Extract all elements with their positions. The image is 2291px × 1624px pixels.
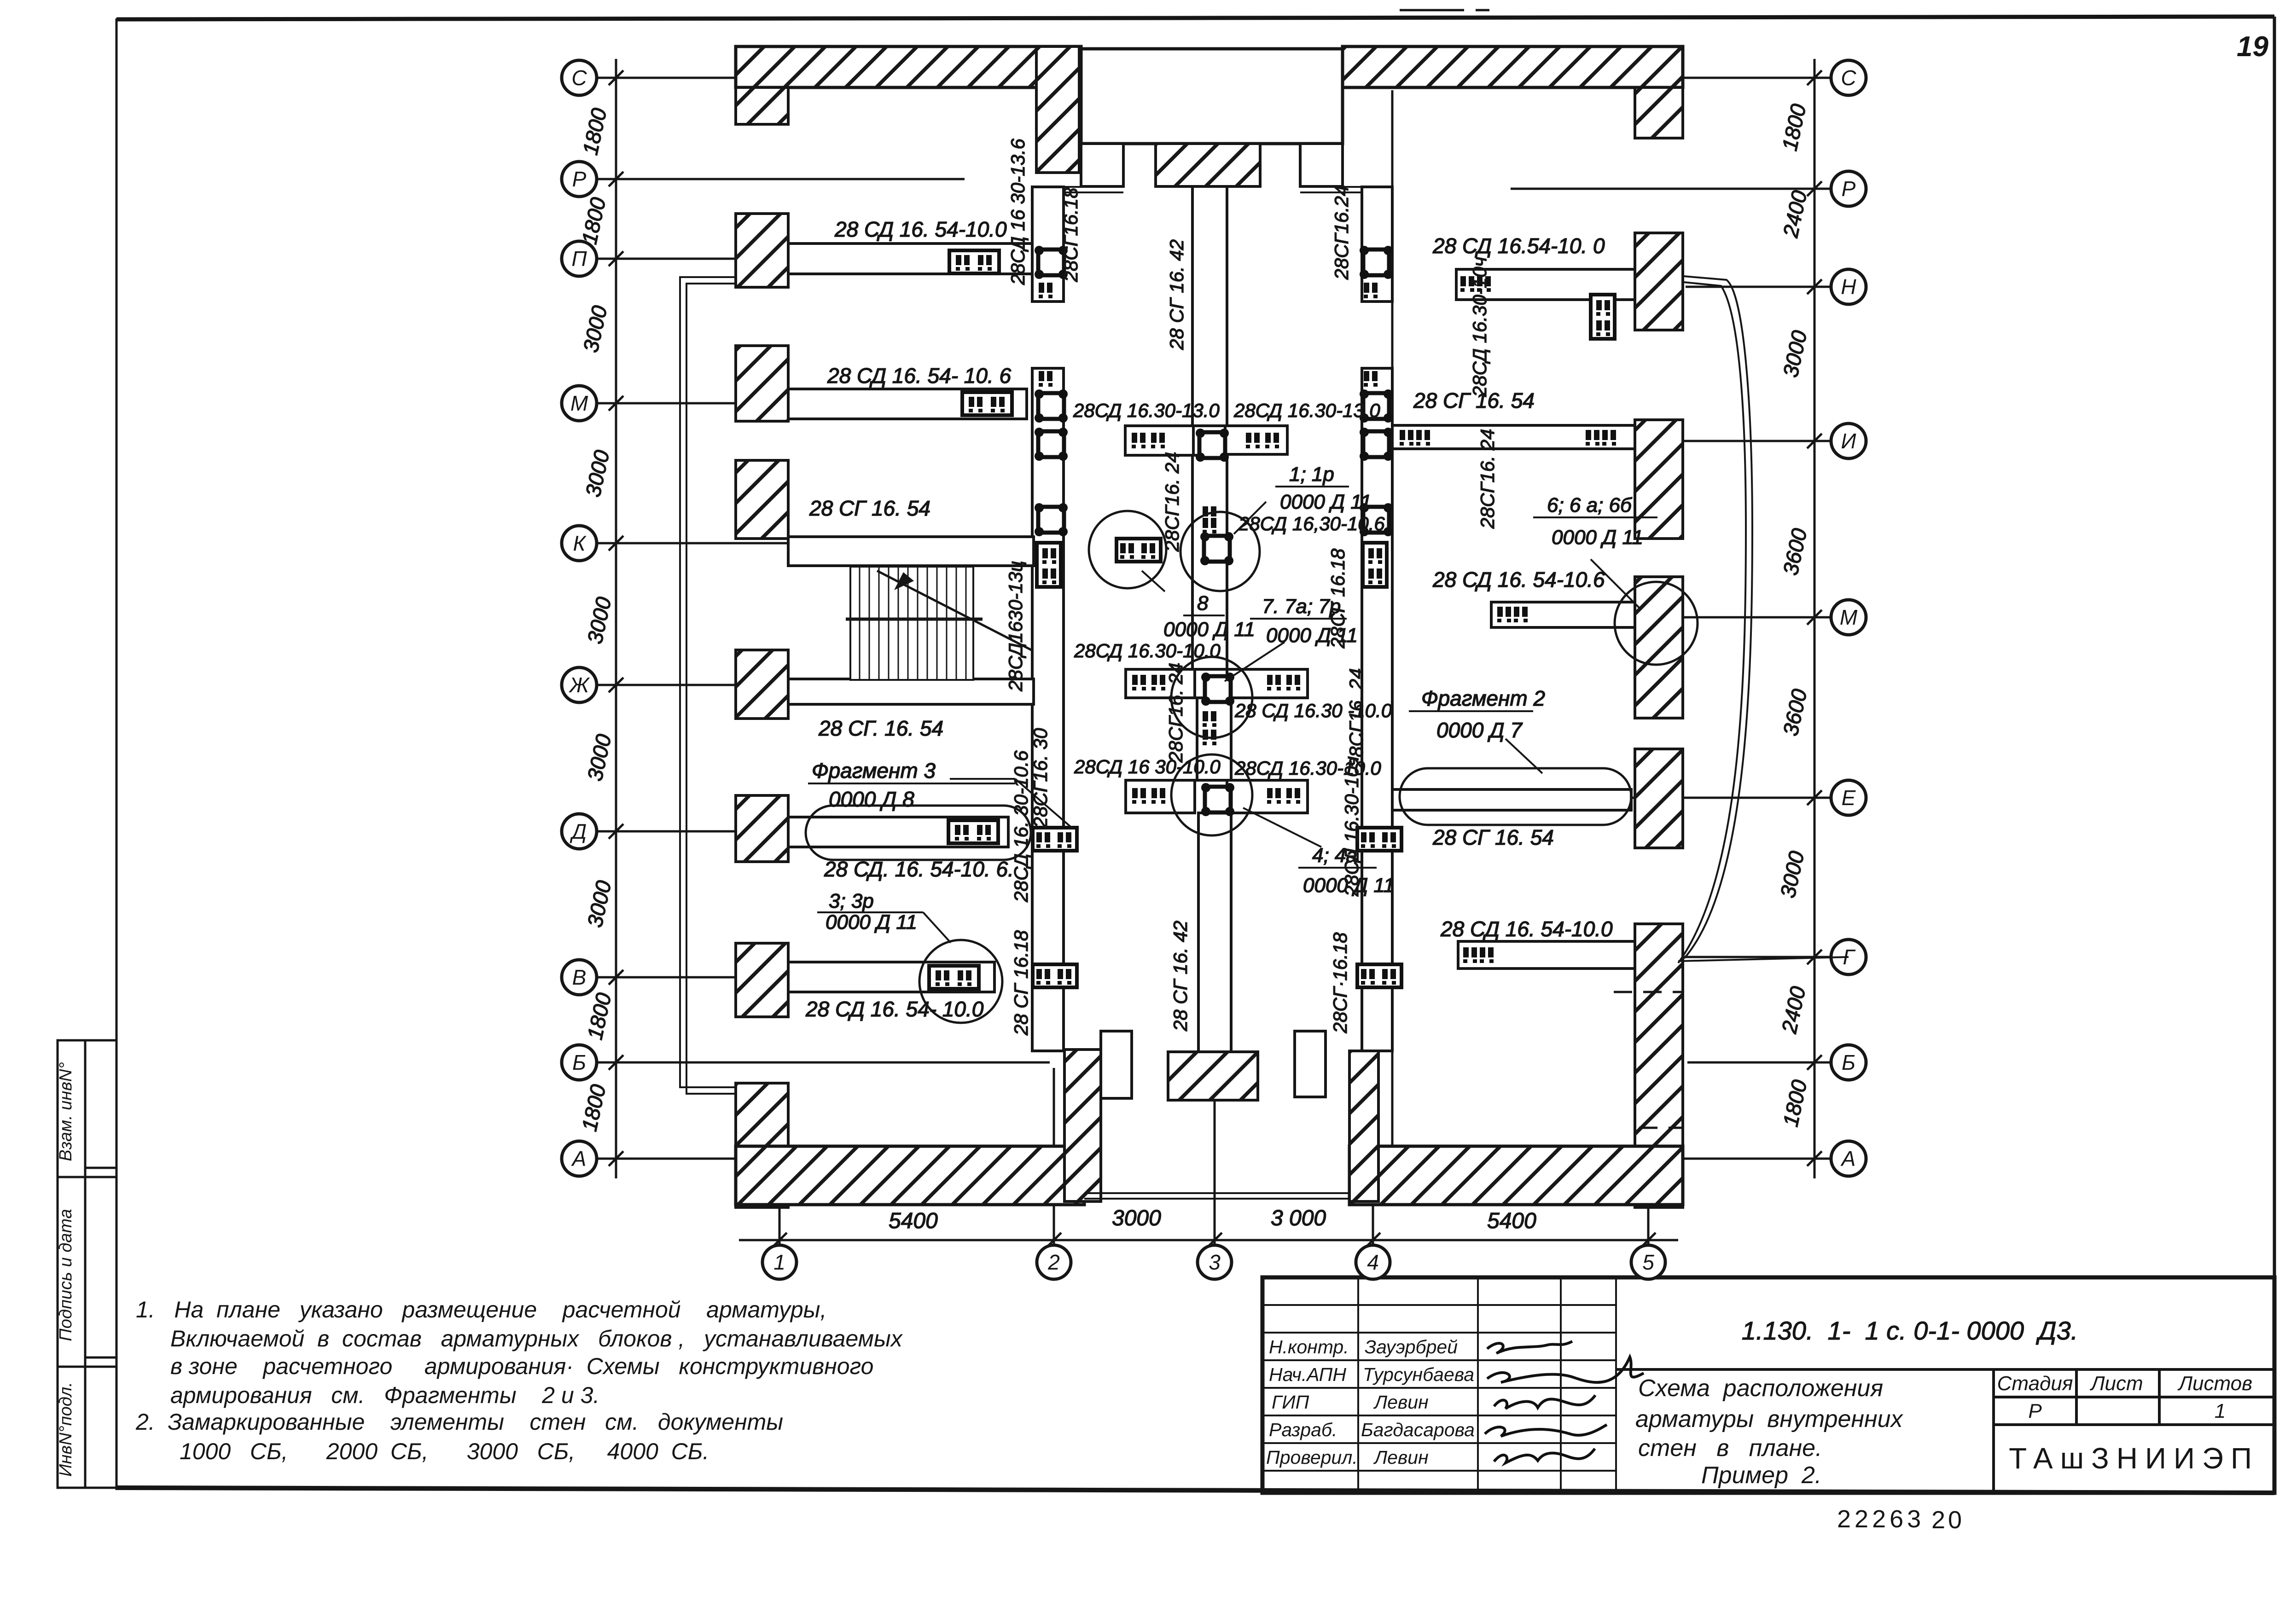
svg-text:0000 Д 11: 0000 Д 11 xyxy=(1163,618,1255,641)
left wing top exterior wall xyxy=(736,46,1081,87)
svg-text:1.130. 1- 1 с. 0-1- 0000 Д3: 1.130. 1- 1 с. 0-1- 0000 Д3. xyxy=(1742,1316,2078,1345)
svg-text:28 СД 16.54-10. 0: 28 СД 16.54-10. 0 xyxy=(1432,234,1605,258)
rebar bar pair xyxy=(1416,430,1430,446)
door pier right of corridor bottom xyxy=(1295,1031,1326,1097)
svg-text:Н.контр.: Н.контр. xyxy=(1269,1336,1349,1357)
svg-text:28СД 16.30-10ч: 28СД 16.30-10ч xyxy=(1341,756,1362,897)
rebar bar pair xyxy=(1460,276,1474,292)
corridor west wall lower segment xyxy=(1032,368,1064,1051)
axis circle Г (right) xyxy=(1831,940,1866,974)
svg-text:в зоне расчетного армир: в зоне расчетного армирования· Схемы кон… xyxy=(170,1353,873,1379)
rebar bar pair xyxy=(1039,371,1052,387)
svg-text:Схема расположения: Схема расположения xyxy=(1638,1375,1883,1402)
left exterior wall pier D xyxy=(736,795,788,862)
staircase xyxy=(846,567,1031,680)
rebar bar pair xyxy=(1286,788,1300,804)
svg-text:2. Замаркированные элемент: 2. Замаркированные элементы стен см. док… xyxy=(135,1409,783,1435)
right wing bottom exterior wall xyxy=(1349,1146,1683,1205)
right dimension line xyxy=(1814,59,1816,1178)
wall Zh (28 SG 16.54) xyxy=(788,679,1034,704)
svg-text:3000: 3000 xyxy=(1112,1206,1161,1230)
svg-text:Н: Н xyxy=(1841,275,1856,299)
rebar block (4 bars) xyxy=(1357,828,1401,851)
left dimension line xyxy=(615,59,617,1178)
rebar bar pair xyxy=(1151,788,1165,804)
svg-text:Разраб.: Разраб. xyxy=(1269,1419,1337,1440)
axis circle С (right) xyxy=(1831,60,1866,95)
svg-text:0000 Д 11: 0000 Д 11 xyxy=(1552,526,1643,549)
column rebar junction xyxy=(1035,246,1068,279)
svg-text:Пример 2.: Пример 2. xyxy=(1701,1462,1821,1489)
column rebar junction xyxy=(1201,783,1234,816)
axis circle П (left) xyxy=(562,241,597,276)
right exterior wall pier E xyxy=(1635,749,1683,848)
rebar bar pair xyxy=(1400,430,1413,446)
rebar block (2 bars) xyxy=(962,392,1012,415)
axis line Г (right) xyxy=(1639,956,1831,958)
svg-text:2: 2 xyxy=(1047,1250,1060,1274)
axis circle 3 (bottom) xyxy=(1198,1245,1232,1279)
svg-text:Лист: Лист xyxy=(2089,1372,2143,1395)
svg-text:5400: 5400 xyxy=(1487,1209,1536,1233)
cross wall row2 right xyxy=(1227,669,1308,698)
svg-text:28СД 16 30-13.6: 28СД 16 30-13.6 xyxy=(1007,138,1029,285)
right rooms west boundary lines xyxy=(1391,90,1394,1146)
svg-text:М: М xyxy=(570,391,588,415)
dashed hidden lines right wall xyxy=(1614,992,1683,1128)
rebar block (vertical) xyxy=(1363,543,1387,587)
axis grid xyxy=(597,59,1831,1245)
svg-text:6; 6 а; 6б: 6; 6 а; 6б xyxy=(1547,494,1633,516)
rebar bar pair xyxy=(1265,433,1279,448)
corridor east wall lower segment xyxy=(1362,368,1392,1051)
left exterior wall pier K xyxy=(736,460,788,539)
svg-text:Нач.АПН: Нач.АПН xyxy=(1269,1364,1346,1385)
corridor center wall lower xyxy=(1198,813,1231,1052)
axis line Б (right) xyxy=(1687,1061,1831,1064)
svg-text:Р: Р xyxy=(1842,177,1856,201)
axis line В (left) xyxy=(597,976,939,979)
svg-text:28СД1630-13ц: 28СД1630-13ц xyxy=(1005,561,1026,691)
column rebar junction xyxy=(1035,428,1068,461)
axis circle А (left) xyxy=(562,1141,597,1176)
wall stub V (28 SD 16.54-10.0) xyxy=(788,962,994,992)
rebar block (vertical) xyxy=(1037,543,1061,587)
axis line 3 (bottom) xyxy=(1214,1027,1216,1245)
axis line А (left) xyxy=(597,1158,1059,1160)
svg-text:0000 Д 11: 0000 Д 11 xyxy=(826,911,917,934)
column rebar junction xyxy=(1201,673,1234,706)
corridor center wall mid xyxy=(1192,455,1227,669)
cross wall row2 left xyxy=(1126,669,1195,698)
svg-text:28 СД 16. 54-10.6: 28 СД 16. 54-10.6 xyxy=(1432,568,1605,592)
axis line М (right) xyxy=(1592,616,1831,619)
axis circle 2 (bottom) xyxy=(1037,1245,1071,1279)
svg-text:28 СГ 16. 42: 28 СГ 16. 42 xyxy=(1169,921,1191,1032)
column rebar junction xyxy=(1360,428,1393,461)
rebar bar pair xyxy=(1480,947,1494,963)
svg-text:22263: 22263 xyxy=(1837,1505,1925,1533)
svg-text:28СГ16. 24: 28СГ16. 24 xyxy=(1345,668,1367,769)
right exterior wall pier C xyxy=(1635,87,1683,138)
left exterior wall pier P1 xyxy=(736,214,788,287)
bottom-left room east wall strip xyxy=(1064,1050,1101,1201)
svg-text:5400: 5400 xyxy=(889,1209,938,1233)
svg-text:28 СД 16. 54- 10. 6: 28 СД 16. 54- 10. 6 xyxy=(827,364,1012,388)
svg-text:С: С xyxy=(571,66,587,90)
rebar bar pair xyxy=(1364,371,1378,387)
svg-text:Взам. инвN°: Взам. инвN° xyxy=(56,1062,76,1161)
svg-text:Зауэрбрей: Зауэрбрей xyxy=(1365,1336,1458,1357)
rebar bar pair xyxy=(1151,433,1165,448)
svg-text:28 СГ 16.18: 28 СГ 16.18 xyxy=(1010,930,1032,1036)
svg-text:0000 Д 8: 0000 Д 8 xyxy=(829,787,914,811)
axis line Р (left) xyxy=(597,178,965,180)
svg-text:3 000: 3 000 xyxy=(1271,1206,1326,1230)
axis line 2 (bottom) xyxy=(1053,1068,1055,1245)
rebar bar pair xyxy=(1132,788,1146,804)
svg-text:армирования см. Фрагменты: армирования см. Фрагменты 2 и 3. xyxy=(170,1382,599,1408)
column rebar junction xyxy=(1360,389,1393,423)
svg-text:стен в плане.: стен в плане. xyxy=(1638,1435,1822,1462)
axis line Д (left) xyxy=(597,830,944,833)
right exterior wall pier I xyxy=(1635,420,1683,539)
svg-text:3; 3р: 3; 3р xyxy=(829,890,874,912)
rebar bar pair xyxy=(1286,675,1300,690)
svg-text:Стадия: Стадия xyxy=(1997,1372,2073,1395)
rebar bar pair xyxy=(1132,433,1145,448)
right exterior wall corner G-A xyxy=(1635,924,1683,1207)
svg-text:28СД 16 30-10.0: 28СД 16 30-10.0 xyxy=(1074,756,1221,777)
svg-text:28СГ16.24: 28СГ16.24 xyxy=(1331,186,1352,280)
svg-text:А: А xyxy=(1840,1147,1856,1171)
notes xyxy=(135,1297,903,1464)
rebar block (2 bars) xyxy=(929,966,979,989)
rebar bar pair xyxy=(1203,730,1216,745)
svg-text:28СГ 16.18: 28СГ 16.18 xyxy=(1327,548,1349,649)
axis circle Е (right) xyxy=(1831,780,1866,815)
column rebar junction xyxy=(1035,503,1068,536)
axis circle М (right) xyxy=(1831,600,1866,635)
svg-text:28 СД 16. 54-10.0: 28 СД 16. 54-10.0 xyxy=(834,217,1007,241)
svg-text:арматуры внутренних: арматуры внутренних xyxy=(1635,1406,1904,1433)
axis line Б (left) xyxy=(597,1061,1050,1064)
corridor east wall upper segment xyxy=(1362,187,1392,302)
bottom dimension line xyxy=(739,1239,1678,1241)
axis line 4 (bottom) xyxy=(1372,1068,1374,1245)
axis circle В (left) xyxy=(562,960,597,995)
column rebar junction xyxy=(1196,429,1229,462)
axis line Е (right) xyxy=(1572,797,1831,799)
rebar bar pair xyxy=(1463,947,1477,963)
wall K (28 SG 16.54) xyxy=(788,537,1034,566)
axis circle Р (right) xyxy=(1831,171,1866,206)
svg-text:ИнвN°подл.: ИнвN°подл. xyxy=(56,1382,76,1477)
right exterior wall pier M xyxy=(1635,577,1683,718)
axis circle Р (left) xyxy=(562,162,597,197)
svg-text:28СГ16.18: 28СГ16.18 xyxy=(1060,187,1082,283)
rebar block (4 bars) xyxy=(1033,964,1077,987)
svg-text:28 СД. 16. 54-10. 6.: 28 СД. 16. 54-10. 6. xyxy=(824,857,1014,881)
rebar bar pair xyxy=(1246,433,1260,448)
svg-text:Левин: Левин xyxy=(1373,1392,1429,1413)
svg-text:1: 1 xyxy=(773,1250,785,1274)
axis circle Ж (left) xyxy=(562,667,597,702)
svg-text:Б: Б xyxy=(572,1050,586,1074)
axis circle Н (right) xyxy=(1831,269,1866,304)
svg-text:1. На плане указано раз: 1. На плане указано размещение расчетной… xyxy=(136,1297,826,1322)
cross wall row3 left xyxy=(1126,780,1195,813)
axis circle М (left) xyxy=(562,386,597,421)
svg-text:Турсунбаева: Турсунбаева xyxy=(1363,1364,1474,1385)
corridor center wall mid2 xyxy=(1197,698,1231,780)
svg-text:28СД 16.30-10.0: 28СД 16.30-10.0 xyxy=(1074,640,1221,661)
axis line Р (right) xyxy=(1511,188,1831,190)
left attribute column xyxy=(58,1040,116,1488)
svg-text:Фрагмент 3: Фрагмент 3 xyxy=(812,759,936,783)
svg-text:5: 5 xyxy=(1642,1250,1654,1274)
wall E (28 SG 16.54) xyxy=(1392,789,1631,810)
left exterior wall corner B-A xyxy=(736,1083,788,1207)
svg-text:20: 20 xyxy=(1931,1506,1965,1534)
vestibule lintel west xyxy=(1064,187,1362,192)
right wing top exterior wall xyxy=(1343,46,1683,87)
wall I right wing (28 SG 16.54) xyxy=(1392,425,1635,449)
rebar bar pair xyxy=(1203,711,1216,727)
svg-text:28СД 16. 30-10.6: 28СД 16. 30-10.6 xyxy=(1010,750,1032,903)
svg-text:28СГ16. 24: 28СГ16. 24 xyxy=(1165,663,1186,763)
svg-text:28СГ16. 24: 28СГ16. 24 xyxy=(1161,452,1183,552)
corridor center bottom stub hatched xyxy=(1168,1052,1258,1100)
svg-text:Р: Р xyxy=(2028,1400,2042,1422)
rebar bar pair xyxy=(1267,788,1281,804)
rebar block (4 bars) xyxy=(1357,964,1401,987)
wall stub P (28 SD 16.54-10.0) xyxy=(788,244,1032,274)
cross wall row3 right xyxy=(1227,780,1308,813)
axis line М (left) xyxy=(597,402,948,405)
rebar bar pair xyxy=(1477,276,1491,292)
axis line С (left) xyxy=(597,77,930,79)
rebar bar pair xyxy=(1602,430,1616,446)
column rebar junction xyxy=(1200,532,1233,565)
column rebar junction xyxy=(1035,389,1068,423)
axis circle 1 (bottom) xyxy=(762,1245,797,1279)
svg-text:28СД 16.30-10ч: 28СД 16.30-10ч xyxy=(1469,257,1490,397)
left exterior wall pier V xyxy=(736,943,788,1017)
svg-text:1000 СБ, 2000 СБ,: 1000 СБ, 2000 СБ, 3000 СБ, 4000 СБ. xyxy=(180,1438,709,1464)
axis circle С (left) xyxy=(562,60,597,95)
svg-text:Фрагмент 2: Фрагмент 2 xyxy=(1421,686,1545,710)
rebar bar pair xyxy=(1497,607,1511,622)
left wing bottom exterior wall xyxy=(736,1146,1084,1205)
svg-text:28 СД 16.30 -10.0: 28 СД 16.30 -10.0 xyxy=(1234,700,1392,721)
svg-text:Ж: Ж xyxy=(569,673,590,697)
svg-text:Подпись и дата: Подпись и дата xyxy=(56,1209,76,1341)
svg-text:И: И xyxy=(1841,429,1856,453)
svg-text:Листов: Листов xyxy=(2177,1372,2252,1395)
rebar bar pair xyxy=(1132,675,1146,690)
svg-text:4: 4 xyxy=(1367,1250,1379,1274)
entrance porch xyxy=(1081,49,1343,144)
wall stub N (28 SD 16.54-10.0) xyxy=(1456,269,1635,300)
cross wall row1 right xyxy=(1225,426,1287,454)
rebar bar pair xyxy=(1039,283,1052,298)
svg-text:Б: Б xyxy=(1842,1050,1855,1074)
svg-text:Е: Е xyxy=(1842,786,1856,810)
rebar block (vertical) xyxy=(1591,295,1615,339)
axis line 1 (bottom) xyxy=(779,1142,781,1245)
axis line А (right) xyxy=(1568,1158,1831,1160)
balcony double contour left xyxy=(680,277,736,1094)
svg-text:Багдасарова: Багдасарова xyxy=(1361,1419,1475,1440)
svg-text:В: В xyxy=(572,965,587,989)
svg-text:Д: Д xyxy=(570,819,587,843)
svg-text:8: 8 xyxy=(1197,592,1209,615)
svg-text:28 СГ 16. 54: 28 СГ 16. 54 xyxy=(1432,825,1554,849)
axis line 5 (bottom) xyxy=(1647,1142,1650,1245)
axis line И (right) xyxy=(1561,440,1831,442)
svg-text:Левин: Левин xyxy=(1373,1447,1429,1468)
rebar bar pair xyxy=(1203,518,1216,534)
svg-text:28 СГ 16. 42: 28 СГ 16. 42 xyxy=(1166,239,1187,350)
svg-text:28 СД 16. 54-10.0: 28 СД 16. 54-10.0 xyxy=(1440,917,1613,941)
svg-text:0000 Д 7: 0000 Д 7 xyxy=(1436,718,1523,742)
svg-text:1; 1р: 1; 1р xyxy=(1289,463,1334,486)
rebar block (2 bars) xyxy=(949,250,999,273)
wall stub M right (28 SD 16.54-10.6) xyxy=(1491,602,1635,627)
svg-text:Проверил.: Проверил. xyxy=(1266,1447,1358,1468)
svg-text:Включаемой в состав армату: Включаемой в состав арматурных блоков , … xyxy=(170,1326,903,1351)
axis circle Б (left) xyxy=(562,1045,597,1080)
left exterior wall pier M xyxy=(736,346,788,421)
rebar block (2 bars) xyxy=(948,820,998,843)
left exterior wall pier Zh xyxy=(736,650,788,719)
svg-text:П: П xyxy=(571,247,587,271)
cross wall row1 left xyxy=(1125,426,1193,455)
top-left room east wall hatched xyxy=(1036,46,1079,173)
axis circle К (left) xyxy=(562,526,597,561)
svg-text:А: А xyxy=(571,1147,587,1171)
svg-text:28СГ16. 24: 28СГ16. 24 xyxy=(1477,429,1498,529)
svg-text:С: С xyxy=(1841,66,1856,90)
rebar bar pair xyxy=(1514,607,1528,622)
axis line Ж (left) xyxy=(597,684,939,686)
porch center hatched stub xyxy=(1156,144,1260,186)
axis circle Д (left) xyxy=(562,814,597,849)
svg-text:28СД 16.30-13.0: 28СД 16.30-13.0 xyxy=(1233,400,1380,421)
right exterior wall pier N xyxy=(1635,233,1683,330)
rebar bar pair xyxy=(1203,506,1216,522)
svg-text:28 СД 16. 54- 10.0: 28 СД 16. 54- 10.0 xyxy=(805,997,984,1021)
axis line П (left) xyxy=(597,258,939,260)
right side curved contour xyxy=(1678,276,1849,963)
title block xyxy=(1262,1277,2274,1493)
svg-text:28СД 16,30-10.6: 28СД 16,30-10.6 xyxy=(1238,513,1385,534)
rebar bar pair xyxy=(1364,283,1378,298)
axis circle Б (right) xyxy=(1831,1045,1866,1080)
svg-text:1: 1 xyxy=(2215,1400,2226,1422)
wall stub D (28 SD 16.54-10.6) xyxy=(788,817,1008,847)
svg-text:3: 3 xyxy=(1209,1250,1221,1274)
axis line Н (right) xyxy=(1686,286,1831,288)
svg-text:ТАшЗНИИЭП: ТАшЗНИИЭП xyxy=(2009,1442,2259,1475)
door pier left of corridor bottom xyxy=(1101,1031,1132,1098)
svg-text:19: 19 xyxy=(2237,31,2268,63)
rebar bar pair xyxy=(1151,675,1165,690)
wall stub G (28 SD 16.54-10.0) xyxy=(1458,941,1635,969)
axis circle А (right) xyxy=(1831,1141,1866,1176)
svg-text:28СГ·16.18: 28СГ·16.18 xyxy=(1329,932,1351,1034)
signatures xyxy=(1485,1341,1644,1463)
corridor west wall upper segment xyxy=(1032,187,1064,302)
rebar block (4 bars) xyxy=(1033,828,1077,851)
svg-text:М: М xyxy=(1840,605,1858,629)
left exterior wall pier C xyxy=(736,87,788,124)
rebar bar pair xyxy=(1586,430,1599,446)
axis circle 5 (bottom) xyxy=(1631,1245,1665,1279)
rebar block (4 bars) xyxy=(1116,539,1161,562)
axis circle И (right) xyxy=(1831,423,1866,458)
corridor center wall upper xyxy=(1192,186,1227,426)
svg-text:28 СГ 16. 54: 28 СГ 16. 54 xyxy=(809,496,930,520)
svg-text:28 СГ. 16. 54: 28 СГ. 16. 54 xyxy=(818,716,943,740)
axis line С (right) xyxy=(1619,77,1831,79)
svg-text:К: К xyxy=(573,531,587,555)
bottom-right room west wall strip xyxy=(1349,1051,1378,1201)
svg-text:Р: Р xyxy=(572,167,587,191)
column rebar junction xyxy=(1360,503,1393,536)
svg-text:28СД 16.30-13.0: 28СД 16.30-13.0 xyxy=(1073,400,1220,421)
wall stub M (28 SD 16.54-10.6) xyxy=(788,389,1027,419)
column rebar junction xyxy=(1360,246,1393,279)
corridor bottom floor double line xyxy=(1084,1193,1349,1199)
axis circle 4 (bottom) xyxy=(1356,1245,1390,1279)
axis line К (left) xyxy=(597,542,939,545)
svg-text:28СГ16. 30: 28СГ16. 30 xyxy=(1029,728,1051,828)
rebar bar pair xyxy=(1267,675,1281,690)
svg-text:0000 Д 11: 0000 Д 11 xyxy=(1280,491,1372,513)
svg-text:ГИП: ГИП xyxy=(1272,1392,1309,1413)
